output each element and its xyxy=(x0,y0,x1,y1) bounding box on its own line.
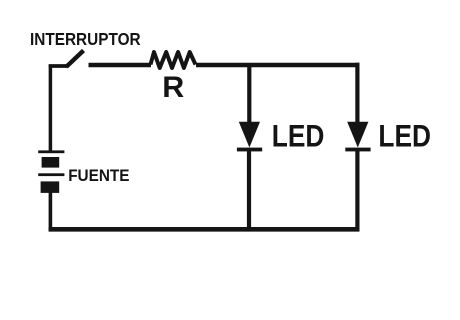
node: junction of branch 1 with top wire xyxy=(247,65,251,123)
battery B1: plate 2 (thick, short) xyxy=(42,157,60,168)
wire: bottom (battery to LED branches) xyxy=(49,227,360,232)
switch S1 (open, interruptor) xyxy=(49,51,84,67)
wire: top (switch to resistor) xyxy=(89,63,152,67)
svg-text:LED: LED xyxy=(378,117,431,153)
LED D2 (right diode) xyxy=(345,122,370,152)
wire: left vertical (battery to bottom wire) xyxy=(49,192,53,232)
node: junction of branch 2 top corner xyxy=(355,63,359,123)
wire: branch 2 vertical (LED D2 to bottom wire) xyxy=(355,150,359,232)
svg-text:INTERRUPTOR: INTERRUPTOR xyxy=(30,29,141,49)
battery B1: plate 4 (thick, short) xyxy=(41,181,60,193)
svg-text:R: R xyxy=(162,71,184,104)
wire: left vertical (switch down to battery) xyxy=(49,65,53,152)
wire: branch 1 vertical (LED D1 to bottom wire) xyxy=(247,150,251,232)
svg-text:FUENTE: FUENTE xyxy=(68,166,129,185)
wire: top right (resistor to LED branches) xyxy=(196,63,360,67)
resistor R1 zigzag xyxy=(151,52,196,68)
battery B1 (fuente): plate 1 (thin, long) xyxy=(38,150,64,153)
LED D1 (left diode) xyxy=(237,122,262,152)
battery B1: plate 3 (thin, long) xyxy=(38,173,64,176)
svg-text:LED: LED xyxy=(272,117,325,153)
